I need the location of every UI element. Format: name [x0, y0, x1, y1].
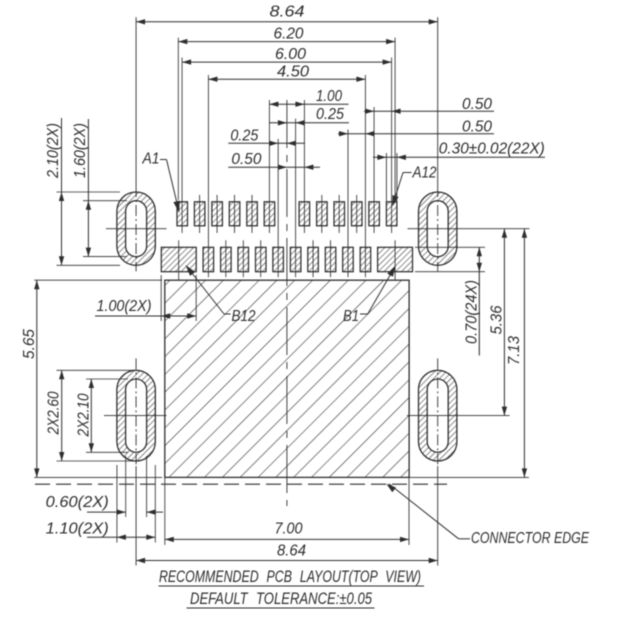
- connector body outline (recommended copper keep-out rectangle): [165, 280, 409, 477]
- svg-text:0.50: 0.50: [231, 151, 261, 168]
- pad B6: [290, 247, 301, 271]
- pad A5: [247, 202, 257, 226]
- svg-text:0.50: 0.50: [462, 118, 492, 135]
- pad A6: [264, 202, 275, 226]
- dimension 1.10(2X) slot pad width: [87, 536, 155, 538]
- mounting slot top-left (pad 1.10x2.10, hole 0.60x1.60): [117, 192, 155, 265]
- dimension 8.64 top: [136, 21, 438, 23]
- mounting slot bottom-left (pad 1.10x2.60, hole 0.60x2.10): [117, 370, 155, 461]
- svg-text:0.50: 0.50: [462, 96, 492, 113]
- svg-text:2X2.10: 2X2.10: [75, 393, 92, 437]
- pad A4: [229, 202, 240, 226]
- pad B5: [308, 247, 319, 271]
- dimension 0.70(24X) pad length: [478, 247, 480, 355]
- svg-text:1.60(2X): 1.60(2X): [72, 123, 89, 178]
- connector edge dashed line: [35, 483, 447, 485]
- horizontal centerline top-right slot / 5.36 7.13 extension: [408, 228, 530, 230]
- pad A2: [194, 202, 205, 226]
- dimension 1.00: [269, 103, 348, 105]
- pad A11: [369, 202, 380, 226]
- pad B12: [161, 247, 196, 271]
- svg-text:1.10(2X): 1.10(2X): [46, 520, 109, 537]
- pad B3: [343, 247, 354, 271]
- mounting slot top-right: [419, 192, 457, 265]
- svg-text:A12: A12: [412, 165, 437, 182]
- dimension 5.65 rectangle height: [36, 280, 38, 477]
- pad B1: [378, 247, 413, 271]
- svg-text:2.10(2X): 2.10(2X): [45, 123, 62, 179]
- pad B7: [273, 247, 284, 271]
- svg-text:0.70(24X): 0.70(24X): [463, 280, 480, 344]
- dimension 0.30±0.02(22X): [373, 156, 545, 158]
- svg-text:7.00: 7.00: [275, 521, 303, 538]
- svg-text:CONNECTOR EDGE: CONNECTOR EDGE: [471, 530, 589, 547]
- centerline top-right slot: [437, 17, 439, 186]
- svg-text:DEFAULT TOLERANCE:±0.05: DEFAULT TOLERANCE:±0.05: [190, 590, 373, 608]
- dimension 0.25 left: [228, 142, 305, 144]
- svg-text:0.25: 0.25: [230, 127, 258, 144]
- horizontal centerline bottom-right slot / 5.36 extension: [407, 415, 510, 417]
- pad A8: [317, 202, 328, 226]
- centerline bottom-left slot: [135, 358, 137, 466]
- svg-text:0.60(2X): 0.60(2X): [46, 494, 109, 511]
- svg-text:0.30±0.02(22X): 0.30±0.02(22X): [439, 141, 545, 158]
- pad A3: [212, 202, 223, 226]
- svg-text:1.00: 1.00: [316, 88, 342, 105]
- svg-text:6.00: 6.00: [275, 46, 306, 63]
- dimension 0.50 right second: [338, 133, 494, 135]
- pad B10: [221, 247, 232, 271]
- pad A12: [386, 202, 397, 226]
- dimension 4.50: [208, 78, 365, 80]
- pad A7: [299, 202, 310, 226]
- svg-text:0.25: 0.25: [316, 106, 344, 123]
- pad B8: [256, 247, 267, 271]
- svg-text:B12: B12: [232, 308, 256, 325]
- svg-text:8.64: 8.64: [270, 4, 305, 21]
- dimension 2X2.60 bottom slot pad height: [61, 370, 63, 461]
- pad A9: [334, 202, 345, 226]
- horizontal centerline bottom-left slot: [104, 415, 167, 417]
- svg-text:RECOMMENDED PCB LAYOUT(TOP VIE: RECOMMENDED PCB LAYOUT(TOP VIEW): [159, 568, 421, 586]
- pad B11: [203, 247, 214, 271]
- mounting slot bottom-right: [419, 370, 457, 461]
- svg-text:1.00(2X): 1.00(2X): [97, 298, 152, 315]
- dimension 0.50 right first: [364, 110, 494, 112]
- dimension 6.00: [182, 61, 392, 63]
- pad B9: [238, 247, 249, 271]
- svg-text:4.50: 4.50: [277, 63, 309, 80]
- svg-text:6.20: 6.20: [274, 25, 304, 42]
- pin centerline stubs B4 B5 B8-B10: [330, 240, 332, 277]
- dimension 5.36: [503, 229, 505, 416]
- dimension 8.64 bottom: [136, 560, 438, 562]
- dimension 1.00(2X) pad B12 width: [95, 315, 196, 317]
- dimension 6.20: [178, 41, 395, 43]
- pad B4: [325, 247, 336, 271]
- pad B2: [360, 247, 371, 271]
- svg-text:8.64: 8.64: [277, 543, 306, 560]
- centerline bottom-right slot: [437, 358, 439, 466]
- vertical centerline of drawing: [286, 100, 288, 506]
- dimension 1.60(2X) top slot hole height: [87, 119, 89, 257]
- svg-text:7.13: 7.13: [506, 336, 523, 365]
- pin centerline stubs A2-A5 A8-A10: [199, 195, 201, 233]
- svg-text:5.36: 5.36: [488, 305, 505, 334]
- pin centerline stub B1: [394, 240, 396, 280]
- dimension 2.10(2X) top slot pad height: [61, 118, 63, 265]
- dimension 2X2.10 bottom slot hole height: [90, 379, 92, 452]
- horizontal centerline top-left slot: [106, 228, 167, 230]
- pad A1: [177, 202, 188, 226]
- dimension 0.60(2X) slot hole width: [87, 511, 126, 513]
- svg-text:B1: B1: [343, 308, 359, 325]
- dimension 0.25 right of center: [269, 122, 349, 124]
- centerline top-left slot: [135, 17, 137, 186]
- svg-text:2X2.60: 2X2.60: [46, 391, 63, 435]
- svg-text:A1: A1: [142, 151, 160, 168]
- pin centerline stub B12: [178, 240, 180, 280]
- dimension 7.00: [165, 538, 409, 540]
- dimension 7.13: [523, 229, 525, 478]
- dimension 0.50 left: [228, 166, 320, 168]
- pad A10: [352, 202, 363, 226]
- svg-text:5.65: 5.65: [21, 329, 38, 359]
